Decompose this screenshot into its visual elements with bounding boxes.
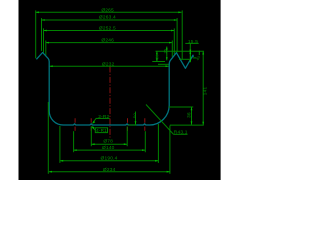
svg-text:4-R1: 4-R1 <box>96 128 107 133</box>
leader 4-R1 (boxed) <box>91 126 107 133</box>
svg-text:2: 2 <box>133 114 136 120</box>
witness line apex-top level (y=51.3) <box>156 50 204 52</box>
svg-text:Ø78: Ø78 <box>103 139 113 145</box>
dimension 15.5 (top right) <box>185 43 198 52</box>
dimension phi265 <box>36 10 183 59</box>
leader R43.1 <box>146 105 188 135</box>
svg-text:25: 25 <box>164 49 168 54</box>
part outline <box>36 53 193 126</box>
angle dimension 40 in V-notch <box>179 51 199 63</box>
dimension 25 (vertical small, at right flange) <box>158 47 169 65</box>
centerline dimple2 <box>90 118 92 131</box>
centerline dimple3 <box>127 118 129 131</box>
svg-text:2-R2: 2-R2 <box>98 114 109 120</box>
svg-text:141: 141 <box>202 87 208 96</box>
svg-text:15.5: 15.5 <box>188 39 198 45</box>
centerline dimple4 <box>144 118 146 131</box>
dimension phi234 <box>48 102 170 174</box>
CAD canvas (black drawing area) <box>19 0 221 180</box>
svg-text:Ø246: Ø246 <box>101 38 114 44</box>
dimension 20 (vertical small, left of right flange) <box>152 51 165 61</box>
svg-text:Ø234: Ø234 <box>103 167 116 173</box>
dimension phi78 <box>91 127 127 147</box>
dimension 141 (vertical far right) <box>202 51 204 125</box>
svg-text:Ø252.5: Ø252.5 <box>99 26 116 32</box>
svg-text:Ø190.4: Ø190.4 <box>101 155 118 161</box>
svg-text:Ø265: Ø265 <box>101 7 114 13</box>
centerline main <box>109 67 111 138</box>
dimension phi263.4 <box>42 18 178 52</box>
dimension 2 (dimple detail) <box>128 112 136 126</box>
svg-text:Ø232: Ø232 <box>102 61 115 67</box>
svg-text:Ø263.4: Ø263.4 <box>99 15 116 21</box>
centerline dimple1 <box>74 118 76 131</box>
dimension phi140 <box>74 131 146 152</box>
svg-text:36: 36 <box>186 112 192 118</box>
svg-text:Ø140: Ø140 <box>102 145 115 151</box>
svg-text:20: 20 <box>155 54 159 59</box>
dimension phi252.5 <box>44 28 175 54</box>
dimension phi190.4 <box>60 124 158 163</box>
dimension 36 (vertical right) <box>169 107 204 125</box>
leader 2-R2 <box>92 118 109 123</box>
dimension phi246 <box>46 41 173 57</box>
dimension phi232 <box>50 65 169 67</box>
svg-text:R43.1: R43.1 <box>174 130 188 136</box>
